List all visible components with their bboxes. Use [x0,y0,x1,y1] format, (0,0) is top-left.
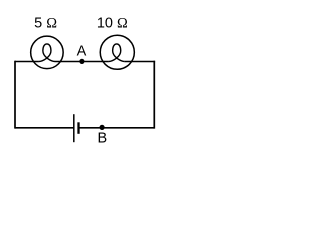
svg-text:10 Ω: 10 Ω [97,16,128,32]
node A junction dot [79,59,84,64]
wire: bottom left segment to battery [15,127,74,129]
svg-text:B: B [97,131,107,147]
lamp L1 (5 ohm) circle [31,36,64,69]
wire: top conductor middle segment (through node A) [55,61,109,63]
wire: left conductor [14,61,16,129]
wire: top conductor left segment [15,61,39,63]
svg-text:A: A [77,44,87,60]
wire: bottom right segment from battery [79,127,155,129]
lamp L1 filament loop [39,44,55,62]
node B junction dot [100,125,105,130]
lamp L2 (10 ohm) circle [100,35,134,69]
wire: top conductor right segment [125,61,155,63]
wire: right conductor [153,61,155,129]
battery B1 short plate (negative) [77,122,79,134]
battery B1 long plate (positive) [73,114,75,142]
svg-text:5 Ω: 5 Ω [34,16,57,32]
lamp L2 filament loop [109,44,125,62]
